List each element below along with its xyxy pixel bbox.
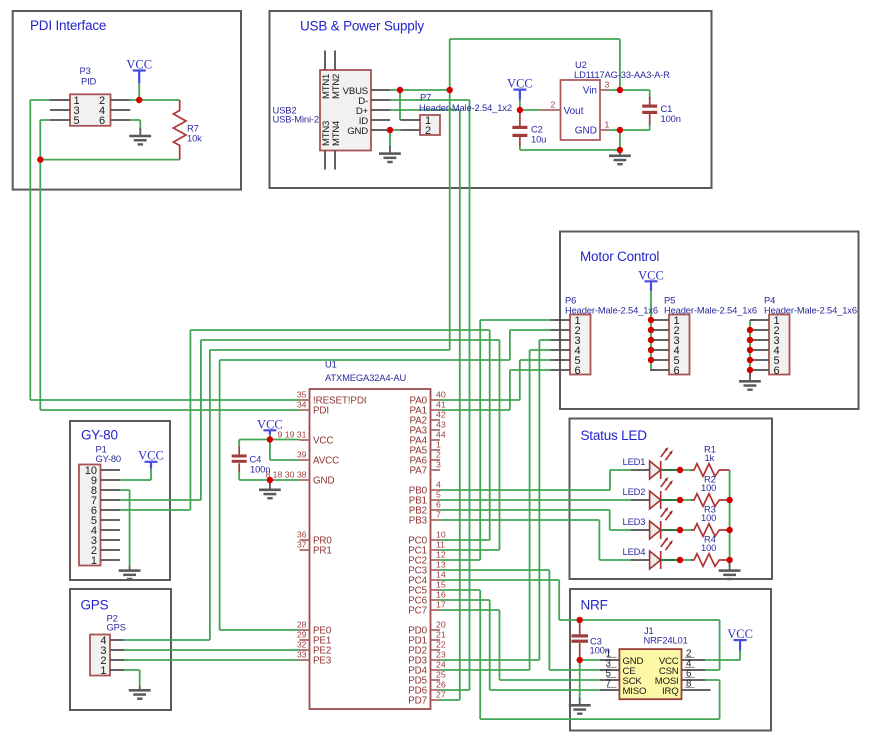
svg-text:7: 7 <box>606 679 611 690</box>
connector P2 GPS <box>90 613 126 678</box>
svg-text:GND: GND <box>347 126 368 137</box>
VCC symbol (U1) <box>257 418 283 435</box>
section box: GY-80 <box>70 421 170 580</box>
header P4 <box>750 295 857 378</box>
wire P6 pin6 to U1 PA1 <box>440 370 551 410</box>
capacitor C2 10u <box>512 112 546 146</box>
section box: PDI Interface <box>13 11 241 190</box>
svg-text:6: 6 <box>436 500 441 510</box>
svg-text:22: 22 <box>436 640 446 650</box>
junction dot VBUS vertical <box>447 87 453 93</box>
junction dot U1 GND <box>267 477 273 483</box>
svg-text:VCC: VCC <box>727 627 753 641</box>
svg-text:GY-80: GY-80 <box>96 453 121 464</box>
svg-text:11: 11 <box>436 540 445 550</box>
wire GPS pin3 to U1 PE2 <box>124 649 300 651</box>
svg-text:28: 28 <box>297 620 307 630</box>
svg-text:23: 23 <box>436 650 446 660</box>
svg-text:Header-Male-2.54_1x6: Header-Male-2.54_1x6 <box>565 305 658 316</box>
svg-text:43: 43 <box>436 420 446 430</box>
junction dot P3 pin2/VCC <box>136 97 142 103</box>
svg-text:33: 33 <box>297 650 307 660</box>
header P6 <box>551 295 658 378</box>
wire P5 VCC bus <box>651 291 655 370</box>
svg-text:LED2: LED2 <box>623 486 646 497</box>
capacitor C3 100n <box>572 620 610 660</box>
svg-text:PE3: PE3 <box>313 656 332 667</box>
wire GY-80 pin7 to U1 PC1 <box>120 340 500 550</box>
LED LED4 <box>623 537 681 569</box>
svg-text:42: 42 <box>436 410 446 420</box>
wire P3 pin1 to U1 !RESET <box>30 100 299 400</box>
svg-text:16: 16 <box>436 590 446 600</box>
svg-text:P7: P7 <box>420 92 431 103</box>
section box: GPS <box>70 589 171 710</box>
svg-text:1: 1 <box>91 555 97 567</box>
IC U1 ATXMEGA32A4-AU <box>310 359 431 710</box>
svg-text:5: 5 <box>74 115 80 127</box>
svg-text:32: 32 <box>297 640 307 650</box>
svg-text:100: 100 <box>701 512 716 523</box>
junction dots P4 ground bus pins 2-6 <box>747 327 753 373</box>
svg-text:USB-Mini-2: USB-Mini-2 <box>273 114 319 125</box>
wire D- net (USB D- to U1 PD6) <box>390 100 470 690</box>
svg-text:29: 29 <box>297 630 307 640</box>
wire U1 PC6 to J1 MISO <box>440 600 600 690</box>
svg-text:ATXMEGA32A4-AU: ATXMEGA32A4-AU <box>325 372 406 383</box>
header P7 <box>400 92 512 138</box>
svg-text:17: 17 <box>436 600 446 610</box>
svg-text:PR1: PR1 <box>313 546 332 557</box>
svg-text:26: 26 <box>436 680 446 690</box>
wire GPS pin1 to ground <box>124 670 140 686</box>
ground (C3 / NRF) <box>569 698 591 715</box>
svg-text:13: 13 <box>436 560 446 570</box>
svg-text:24: 24 <box>436 660 446 670</box>
svg-text:1: 1 <box>436 440 441 450</box>
junction dot C3 top / CSN net <box>577 617 583 623</box>
wire GPS pin2 to U1 PE3 <box>124 659 300 661</box>
wire P6 pin3 to U1 PD3 <box>440 340 551 660</box>
ground (U1 GND) <box>259 480 281 499</box>
junction dot VCC/Vout/C2 <box>517 107 523 113</box>
regulator U2 LD1117AG-33-AA3-A-R <box>540 59 670 140</box>
capacitor C1 100n <box>642 97 681 125</box>
wire P6 pin5 to U1 PA0 <box>440 360 551 400</box>
resistor R7 <box>173 100 202 160</box>
svg-text:Motor Control: Motor Control <box>580 249 659 264</box>
svg-text:PB3: PB3 <box>409 516 428 527</box>
svg-text:15: 15 <box>436 580 446 590</box>
svg-text:NRF: NRF <box>581 598 608 613</box>
junction dot P3 pin5/R7 <box>37 156 43 162</box>
svg-text:Header-Male-2.54_1x6: Header-Male-2.54_1x6 <box>664 305 757 316</box>
U1 right pin stubs <box>431 400 441 700</box>
wire U1 PC3 to J1 CE <box>440 570 600 670</box>
svg-text:VCC: VCC <box>138 449 164 463</box>
ground (GY-80 pin8) <box>119 566 141 580</box>
wire PDI VCC / P3 pin2 / R7 top net <box>130 83 179 100</box>
VCC symbol (Motor Control P5) <box>638 269 664 291</box>
svg-text:3: 3 <box>605 80 610 90</box>
wire P6 pin2 to U1 PE0 <box>220 330 551 630</box>
svg-text:27: 27 <box>436 690 446 700</box>
svg-text:MTN4: MTN4 <box>331 121 342 146</box>
resistor R2 <box>691 474 730 507</box>
svg-text:IRQ: IRQ <box>662 686 678 697</box>
wire GY-80 pin6 to U1 PC0 <box>120 330 490 540</box>
wire D+ net (USB D+ to U1 PD7) <box>390 110 460 700</box>
svg-text:PID: PID <box>81 76 97 87</box>
section box: NRF <box>570 589 771 731</box>
wire P4 ground bus <box>750 320 754 377</box>
svg-text:100n: 100n <box>590 645 610 656</box>
svg-text:PDI: PDI <box>313 406 329 417</box>
junction dots LED cathodes <box>677 467 683 563</box>
connector P3 PID <box>50 65 130 127</box>
svg-text:GND: GND <box>313 476 334 487</box>
svg-text:Header-Male-2.54_1x6: Header-Male-2.54_1x6 <box>764 305 857 316</box>
wire NRF VCC to J1 pin2 <box>705 651 740 660</box>
svg-text:5: 5 <box>436 490 441 500</box>
svg-text:Vout: Vout <box>564 106 584 117</box>
wire USB GND net <box>390 130 400 148</box>
section box: USB & Power Supply <box>270 11 712 188</box>
wire GY-80 pin9 to VCC <box>120 469 151 480</box>
svg-text:MISO: MISO <box>623 686 647 697</box>
svg-text:6: 6 <box>774 365 780 377</box>
wire U1 GND / C4 bottom <box>239 471 299 481</box>
svg-text:GND: GND <box>575 126 597 137</box>
svg-text:12: 12 <box>436 550 446 560</box>
svg-text:44: 44 <box>436 430 446 440</box>
svg-text:21: 21 <box>436 630 446 640</box>
junction dots resistor output bus <box>726 497 732 563</box>
resistor R3 <box>691 504 730 537</box>
svg-text:1: 1 <box>605 120 610 130</box>
wire LED outputs to resistors and ground bus <box>680 470 730 566</box>
module J1 NRF24L01 <box>600 625 711 699</box>
VCC symbol (GY-80) <box>138 449 164 469</box>
svg-text:NRF24L01: NRF24L01 <box>644 635 688 646</box>
svg-text:35: 35 <box>297 390 307 400</box>
section box: Status LED <box>570 419 773 580</box>
svg-text:VCC: VCC <box>507 77 533 91</box>
svg-text:7: 7 <box>436 510 441 520</box>
wire U1 VCC / AVCC / C4 top <box>239 435 299 461</box>
ground (USB GND) <box>379 146 401 163</box>
capacitor C4 100n <box>232 447 271 475</box>
wire U1 PC4 to J1 CSN and C3 <box>440 580 720 670</box>
svg-text:LD1117AG-33-AA3-A-R: LD1117AG-33-AA3-A-R <box>574 69 670 80</box>
VCC symbol (NRF) <box>727 627 753 651</box>
junction dot U1 VCC <box>267 436 273 442</box>
svg-text:100n: 100n <box>661 113 681 124</box>
svg-text:LED4: LED4 <box>623 546 646 557</box>
svg-text:PC7: PC7 <box>408 606 427 617</box>
ground (Status LED bus) <box>719 563 741 580</box>
svg-text:39: 39 <box>297 450 307 460</box>
svg-text:6: 6 <box>575 365 581 377</box>
junction dots P5 VCC bus pins 1-5 <box>648 317 654 363</box>
svg-text:10: 10 <box>436 530 446 540</box>
svg-text:1k: 1k <box>705 452 715 463</box>
header P5 <box>650 295 757 378</box>
wire U1 PC5 to J1 MOSI <box>440 590 720 719</box>
U1 left pin names and numbers <box>265 390 366 667</box>
ground (U2) <box>609 150 631 165</box>
svg-text:GPS: GPS <box>107 622 126 633</box>
ground (PDI pin6) <box>129 128 151 146</box>
svg-text:Header-Male-2.54_1x2: Header-Male-2.54_1x2 <box>419 102 512 113</box>
LED LED3 <box>623 507 681 539</box>
wire P3 pin6 to ground <box>130 120 140 132</box>
svg-text:LED1: LED1 <box>623 456 646 467</box>
wire U1 PB2 to LED3 <box>440 510 631 530</box>
svg-text:2: 2 <box>425 125 431 137</box>
wire GY-80 pin8 to ground <box>120 490 130 566</box>
junction dot U2 GND/C1 <box>617 127 623 133</box>
svg-text:6: 6 <box>99 115 105 127</box>
wire U1 PC7 to J1 SCK <box>440 610 600 680</box>
svg-text:Status LED: Status LED <box>581 428 648 443</box>
svg-text:10u: 10u <box>531 134 546 145</box>
resistor R1 <box>691 444 730 477</box>
svg-text:4: 4 <box>436 480 441 490</box>
junction dot USB VBUS / P7 pin1 <box>397 87 403 93</box>
svg-text:36: 36 <box>297 530 307 540</box>
svg-text:6: 6 <box>674 365 680 377</box>
svg-text:PD7: PD7 <box>408 696 427 707</box>
svg-text:2: 2 <box>551 100 556 110</box>
junction dot C2 bottom/ground <box>617 147 623 153</box>
wire P6 pin1 to U1 PC2 <box>440 320 551 560</box>
U1 left pin stubs <box>300 400 310 660</box>
LED LED2 <box>623 477 681 509</box>
svg-text:GPS: GPS <box>81 598 109 613</box>
svg-text:PA7: PA7 <box>410 466 428 477</box>
svg-text:10k: 10k <box>187 133 202 144</box>
junction dot U2 Vin <box>617 87 623 93</box>
svg-text:2: 2 <box>436 450 441 460</box>
svg-text:Vin: Vin <box>583 86 597 97</box>
VCC symbol (U2 Vout) <box>507 77 533 100</box>
wire U1 PB3 to LED4 <box>440 520 631 560</box>
svg-text:100: 100 <box>701 542 716 553</box>
wire VBUS net (USB VBUS to U2 Vin, C1, GPS pin4, P7 pin1) <box>124 39 650 640</box>
svg-text:PDI Interface: PDI Interface <box>30 18 106 33</box>
wire P3 pin5 / R7 bottom to U1 PDI <box>40 120 299 410</box>
svg-text:P3: P3 <box>80 65 91 76</box>
LED LED1 <box>623 447 681 479</box>
svg-text:8: 8 <box>686 679 692 690</box>
section box: Motor Control <box>560 232 859 410</box>
wire U2 GND net (C1 bottom, C2 bottom, ground) <box>520 124 650 151</box>
junction dot USB GND <box>387 127 393 133</box>
svg-text:100n: 100n <box>250 464 270 475</box>
resistor R4 <box>691 534 730 567</box>
svg-text:14: 14 <box>436 570 446 580</box>
svg-text:VCC: VCC <box>313 436 333 447</box>
ground (P4) <box>739 373 761 391</box>
svg-text:U1: U1 <box>325 359 337 370</box>
svg-text:MTN2: MTN2 <box>331 74 342 99</box>
VCC symbol (PDI) <box>126 58 152 84</box>
wire P6 pin4 to U1 PD4 <box>440 350 551 670</box>
svg-text:37: 37 <box>297 540 307 550</box>
svg-text:25: 25 <box>436 670 446 680</box>
svg-text:41: 41 <box>436 400 446 410</box>
svg-text:1: 1 <box>100 665 106 677</box>
wire U1 PB0 to LED1 <box>440 470 631 490</box>
ground (GPS pin1) <box>129 686 151 700</box>
svg-text:40: 40 <box>436 390 446 400</box>
wire U1 PB1 to LED2 <box>440 499 631 501</box>
svg-text:20: 20 <box>436 620 446 630</box>
junction dot C3 bottom / J1 GND <box>577 657 583 663</box>
svg-text:LED3: LED3 <box>623 516 646 527</box>
svg-text:AVCC: AVCC <box>313 456 339 467</box>
svg-text:34: 34 <box>297 400 307 410</box>
svg-text:GY-80: GY-80 <box>81 428 118 443</box>
svg-text:USB & Power Supply: USB & Power Supply <box>300 19 424 34</box>
wire VCC net at U2 Vout / C2 <box>520 100 540 110</box>
U1 right pin names and numbers <box>408 390 446 707</box>
svg-text:3: 3 <box>436 460 441 470</box>
wire C3 ground net / J1 GND pin <box>580 660 600 701</box>
svg-text:100: 100 <box>701 482 716 493</box>
connector P1 GY-80 <box>79 444 121 568</box>
USB-Mini connector USB2 <box>273 51 391 170</box>
